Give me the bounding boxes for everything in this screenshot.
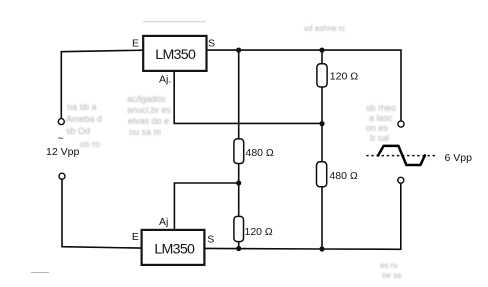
resistor R4 120 ohm (bottom): [234, 216, 273, 241]
output terminal top (open circle): [398, 121, 404, 127]
output waveform: dotted baseline: [366, 155, 437, 157]
svg-text:es rs: es rs: [380, 261, 397, 270]
regulator U1 LM350 (top): [132, 36, 215, 86]
svg-text:Aj.: Aj.: [159, 74, 171, 86]
svg-text:E: E: [132, 38, 139, 50]
svg-text:a lasc: a lasc: [369, 113, 393, 123]
svg-text:S: S: [208, 38, 215, 50]
svg-text:120 Ω: 120 Ω: [245, 226, 273, 238]
wire: top rail right (U1.S to output): [207, 50, 402, 121]
svg-text:elvas do e: elvas do e: [128, 116, 169, 126]
junction node A top (238.7,50): [236, 48, 241, 53]
svg-text:LM350: LM350: [154, 242, 195, 258]
resistor R1 120 ohm (top): [317, 64, 358, 87]
svg-text:480 Ω: 480 Ω: [329, 170, 357, 182]
svg-text:sb Od: sb Od: [66, 126, 90, 136]
svg-text:6 Vpp: 6 Vpp: [445, 152, 473, 164]
wire: branch B vertical (node B, x=322): [321, 50, 323, 64]
svg-text:480 Ω: 480 Ω: [246, 147, 274, 159]
input terminal top (open circle): [58, 119, 64, 125]
regulator U2 LM350 (bottom): [132, 216, 214, 265]
resistor R3 480 ohm (right middle): [317, 162, 358, 187]
svg-text:na sb a: na sb a: [67, 102, 97, 112]
wire: U1 adjust line: [174, 71, 322, 124]
svg-text:E: E: [132, 231, 139, 243]
wire: U2 adjust line: [174, 183, 238, 230]
svg-text:LM350: LM350: [155, 47, 196, 63]
svg-text:S: S: [207, 234, 214, 246]
junction node A bottom (238.7,248.7): [236, 246, 241, 251]
svg-text:120 Ω: 120 Ω: [330, 70, 358, 82]
junction node B mid (322,123): [319, 121, 324, 126]
wire: branch A vertical (node A, x=238.7): [238, 50, 240, 139]
resistor R2 480 ohm (left middle): [234, 139, 274, 164]
svg-text:anucl.br es: anucl.br es: [127, 105, 172, 115]
svg-text:Aj: Aj: [159, 216, 168, 228]
input terminal bottom (open circle): [59, 173, 65, 179]
junction node B top (322,50): [319, 48, 324, 53]
svg-text:us ro: us ro: [80, 139, 100, 149]
wire: bottom rail left (source to U2.E): [62, 179, 141, 248]
svg-text:on es: on es: [366, 123, 389, 133]
output terminal bottom (open circle): [398, 177, 404, 183]
svg-text:ac/lgados: ac/lgados: [127, 94, 166, 104]
svg-text:Ameba d: Ameba d: [66, 114, 102, 124]
junction node B bottom (322,248.7): [319, 246, 324, 251]
junction node A mid (239,183): [236, 180, 241, 185]
svg-text:ou sa m: ou sa m: [129, 127, 161, 137]
wire: top rail left (source to U1.E): [61, 50, 143, 118]
wire: bottom rail right (U2.S to output): [204, 183, 400, 249]
svg-text:~: ~: [58, 134, 64, 145]
output waveform: clipped sine: [378, 146, 425, 165]
faint scan line above top box (decorative): [143, 21, 206, 23]
svg-text:12 Vpp: 12 Vpp: [46, 146, 79, 158]
svg-text:b sal: b sal: [370, 133, 389, 143]
svg-text:ne se: ne se: [382, 271, 402, 280]
svg-text:vd ashne rc: vd ashne rc: [304, 24, 345, 33]
svg-text:sb rheo: sb rheo: [366, 103, 396, 113]
ghost bleed-through texture (decorative): [66, 24, 402, 280]
